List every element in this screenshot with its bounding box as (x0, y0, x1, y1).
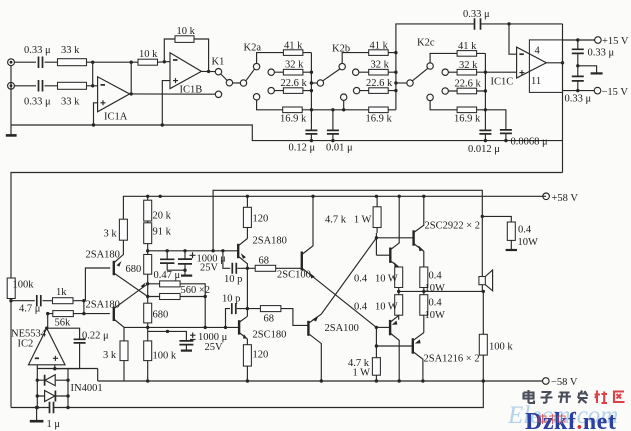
svg-text:1k: 1k (56, 287, 67, 298)
capacitor 0.33u (bottom input) (24, 80, 51, 108)
svg-text:2SA1216 × 2: 2SA1216 × 2 (424, 354, 480, 365)
svg-text:41 k: 41 k (284, 40, 303, 51)
svg-text:3 k: 3 k (103, 350, 117, 361)
op-amp IC1B (170, 53, 202, 96)
terminal -58V (543, 377, 578, 388)
svg-text:25V: 25V (205, 342, 224, 353)
svg-text:33 k: 33 k (61, 97, 80, 108)
resistor 22.6k (K2a) (281, 78, 308, 93)
svg-text:0.12 μ: 0.12 μ (289, 143, 316, 154)
svg-text:41 k: 41 k (458, 41, 477, 52)
wire: bottom feedback wire (11, 381, 483, 408)
resistor 56k (53, 311, 74, 329)
wire: IC1B output to K1 (201, 70, 215, 72)
svg-text:33 k: 33 k (61, 45, 80, 56)
svg-text:120: 120 (253, 350, 269, 361)
capacitor 1000u 25V (lower, bipolar) (166, 330, 228, 353)
wire: IC1B +input to ground bus (162, 81, 170, 125)
node: 1k/56k junction (82, 299, 85, 302)
op-amp IC1A (98, 77, 130, 123)
op-amp IC2 NE5534 (11, 327, 65, 365)
wire: K2a 32k row (274, 71, 311, 73)
wire: driver base node line (148, 250, 238, 252)
resistor 0.4 10W (upper left) (354, 267, 403, 291)
resistor 16.9k (K2c) (454, 107, 481, 125)
svg-text:16.9 k: 16.9 k (366, 114, 393, 125)
input terminal J1 (top) (8, 59, 15, 66)
switch K2c contact 32k (442, 69, 448, 75)
capacitor 0.012u (468, 130, 500, 155)
resistor 32k (K2c) (457, 60, 478, 75)
resistor 0.4 10W (lower right) (420, 291, 445, 332)
svg-text:0.4: 0.4 (429, 298, 443, 309)
capacitor 10p (upper) (223, 251, 249, 285)
svg-text:K1: K1 (212, 57, 225, 68)
svg-text:100k: 100k (13, 280, 35, 291)
svg-text:16.9 k: 16.9 k (280, 114, 307, 125)
svg-text:+58 V: +58 V (552, 193, 579, 204)
resistor 68 (lower) (247, 306, 308, 326)
resistor 680 (lower) (144, 284, 169, 329)
svg-text:0.33 μ: 0.33 μ (24, 45, 51, 56)
resistor 100k (input) (7, 278, 34, 299)
switch K2c contact 16.9k (427, 94, 486, 110)
svg-text:0.33 μ: 0.33 μ (588, 48, 615, 59)
resistor 100k (output to -58V) (479, 291, 513, 382)
svg-text:0.01 μ: 0.01 μ (326, 143, 353, 154)
IC1C power box (pins 4 / 11) (529, 40, 562, 93)
wire: K2b 22.6k row (360, 90, 396, 92)
svg-text:0.33 μ: 0.33 μ (24, 97, 51, 108)
resistor 22.6k (K2c) (455, 78, 482, 93)
wire: output node line (399, 290, 484, 292)
svg-text:680: 680 (126, 264, 142, 275)
svg-text:0.33 μ: 0.33 μ (463, 9, 490, 20)
svg-text:0.22 μ: 0.22 μ (82, 331, 109, 342)
wire: K2c 22.6k row (448, 90, 485, 92)
transistor T4 2SA1216 (right of pair) (376, 333, 479, 383)
resistor 16.9k (K2a) (280, 107, 307, 125)
transistor Q3 2SA180 (upper input) (86, 240, 148, 296)
watermark: small red overlay glyphs (539, 414, 565, 424)
wire: K2a output bus (310, 53, 312, 141)
capacitor 0.33u (+15 decoupling) (572, 38, 615, 76)
capacitor 4.7u (19, 295, 41, 315)
svg-text:32 k: 32 k (371, 60, 390, 71)
capacitor 0.33u (top input) (24, 45, 51, 68)
transistor Q7 2SA100 (308, 238, 376, 383)
svg-text:2SC180: 2SC180 (253, 330, 287, 341)
terminal -15V (594, 87, 628, 98)
resistor 33k (bottom) (58, 82, 87, 107)
wire: IC1C -input from feedback line (509, 24, 517, 54)
wire: lower bias rail (124, 326, 239, 328)
resistor 32k (K2b) (369, 60, 390, 75)
switch K2c pole (396, 38, 435, 87)
svg-text:1 W: 1 W (353, 368, 371, 379)
svg-text:11: 11 (531, 76, 541, 87)
transistor T2 2SC2922 (left of pair) (376, 195, 401, 268)
svg-text:2SC2922 × 2: 2SC2922 × 2 (425, 221, 481, 232)
switch K2a pole (240, 43, 261, 87)
capacitor 0.47u (154, 249, 186, 281)
wire: diode clamp rails (37, 369, 68, 408)
diode D1 IN4001 (37, 375, 68, 386)
svg-text:0.4: 0.4 (518, 225, 532, 236)
transistor Q8 2SC100 (277, 195, 376, 328)
transistor Q4 2SA180 (lower input) (86, 282, 148, 341)
resistor 0.4 10W (lower left) (354, 291, 403, 319)
wire: 16.9k row (K2a to K2b) (257, 100, 396, 110)
resistor 20k (144, 195, 172, 222)
svg-text:68: 68 (259, 256, 270, 267)
svg-text:10W: 10W (518, 237, 539, 248)
svg-text:4.7 μ: 4.7 μ (19, 304, 41, 315)
wire: IC2 -input stub to diode rail (36, 365, 38, 369)
svg-text:680: 680 (153, 310, 169, 321)
switch K2a contact 32k (268, 69, 274, 75)
wire: feedback rail (output to driver node) (213, 190, 482, 251)
switch K2a contact 16.9k (253, 94, 259, 100)
svg-text:41 k: 41 k (370, 40, 389, 51)
svg-text:100 k: 100 k (489, 342, 513, 353)
resistor 3k (lower) (103, 341, 128, 381)
svg-text:−15 V: −15 V (602, 87, 629, 98)
resistor 10k (series) (138, 49, 158, 65)
svg-text:0.47 μ: 0.47 μ (154, 270, 181, 281)
svg-text:22.6 k: 22.6 k (366, 78, 393, 89)
wire: input common vertical to ground (10, 66, 12, 135)
diode D2 IN4001 (37, 383, 102, 402)
wire: IC1C output to right vertical (546, 62, 562, 64)
resistor 41k (K2b) (369, 40, 389, 55)
resistor 32k (K2a) (283, 60, 304, 75)
ground (feedback return) (30, 406, 44, 421)
resistor 41k (K2c) (457, 41, 477, 56)
svg-text:32 k: 32 k (459, 60, 478, 71)
wire: junction vertical + to Q4 base (84, 301, 110, 314)
svg-text:1 μ: 1 μ (47, 419, 61, 430)
resistor 560 (upper of x2) (148, 281, 206, 297)
wire: vertical to Q3 base (84, 268, 110, 301)
speaker LS (479, 216, 493, 291)
wire: 56k row (48, 314, 84, 329)
capacitor 0.0068u (485, 110, 548, 148)
resistor 120 (lower) (243, 345, 268, 383)
capacitor 0.33u (IC1C feedback) (463, 9, 490, 30)
svg-text:16.9 k: 16.9 k (454, 114, 481, 125)
switch K2a contact 22.6k (268, 87, 274, 93)
resistor 100k (mid) (144, 327, 177, 382)
svg-text:10 k: 10 k (177, 26, 196, 37)
svg-text:120: 120 (253, 214, 269, 225)
switch K2b contact 32k (353, 69, 359, 75)
transistor Q5 2SA180 (driver) (238, 236, 287, 317)
svg-text:10W: 10W (425, 283, 446, 294)
svg-text:IC1A: IC1A (104, 112, 128, 123)
svg-text:IC2: IC2 (18, 339, 34, 350)
wire: ground bus (top section) (11, 125, 563, 141)
wire: IC1A output (130, 93, 216, 95)
capacitor 0.33u (-15 decoupling) (565, 76, 592, 104)
capacitor 10p (lower) (222, 294, 249, 328)
switch K1 (212, 57, 241, 98)
ground (decoupling midpoint) (576, 64, 603, 73)
wire: K2c output bus (484, 53, 486, 140)
resistor 560 (lower of x2) (146, 285, 210, 327)
svg-text:3 k: 3 k (104, 229, 118, 240)
svg-text:0.012 μ: 0.012 μ (468, 144, 500, 155)
wire: K2c bus to IC1C +input (485, 71, 516, 73)
wire: IC1A +input to ground bus (94, 103, 98, 125)
resistor 10k (IC1B feedback) (175, 26, 196, 42)
wire: bottom input row (14, 85, 97, 87)
svg-text:2SA100: 2SA100 (325, 323, 359, 334)
svg-text:IC1C: IC1C (491, 77, 514, 88)
wire: +58V rail (123, 196, 546, 219)
resistor 33k (top) (58, 45, 87, 66)
wire: IC1B feedback loop (164, 39, 208, 71)
svg-text:K2a: K2a (244, 43, 262, 54)
wire: left edge below 100k down to bottom wire (10, 299, 12, 408)
resistor 68 (upper) (247, 256, 301, 272)
wire: top input row (14, 61, 138, 63)
svg-text:56k: 56k (55, 318, 72, 329)
svg-text:IN4001: IN4001 (71, 383, 103, 394)
wire: 10k to IC1B -input (158, 61, 171, 64)
resistor 22.6k (K2b) (366, 78, 393, 93)
svg-text:10 p: 10 p (222, 294, 240, 305)
wire: K2b output bus (up to 0.33u feedback line) (396, 24, 563, 110)
terminal +58V (543, 193, 579, 204)
resistor 0.4 10W (upper right) (420, 267, 445, 294)
svg-text:−58 V: −58 V (551, 377, 578, 388)
ground (input) (6, 134, 17, 137)
wire: K2a 41k row (257, 53, 312, 64)
switch K2b contact 22.6k (353, 87, 359, 93)
capacitor 1u (feedback) (47, 402, 61, 430)
svg-text:22.6 k: 22.6 k (455, 78, 482, 89)
capacitor 0.01u (326, 108, 353, 153)
svg-text:32 k: 32 k (285, 60, 304, 71)
resistor 120 (upper) (243, 195, 268, 239)
wire: -58V rail (68, 369, 543, 382)
wire: signal line from IC1C down-left into lower amp (box top edge + left edge) (11, 173, 563, 279)
op-amp IC1C (491, 47, 547, 87)
resistor 1k (53, 287, 74, 304)
input terminal J2 (bottom) (8, 82, 15, 89)
svg-text:IC1B: IC1B (180, 85, 203, 96)
wire: +15V rail (563, 39, 595, 41)
switch K2c contact 22.6k (442, 88, 448, 94)
switch K2b contact 16.9k (341, 94, 347, 112)
wire: right vertical (output / box edge down to lower section) (562, 24, 564, 173)
wire: K2b 32k row (359, 71, 396, 73)
resistor 0.4 10W (zobel, top right) (481, 215, 538, 250)
svg-text:4.7 k 1 W: 4.7 k 1 W (325, 215, 372, 226)
svg-text:+15 V: +15 V (602, 36, 629, 47)
wire: -15V rail (563, 90, 595, 92)
resistor 4.7k 1W (upper) (325, 195, 381, 256)
capacitor 0.12u (289, 130, 318, 153)
watermark: CJK title strokes (dian zi kai fa) (524, 390, 588, 403)
capacitor 0.22u (IC2 comp) (48, 328, 109, 369)
wire: K2c 41k row (430, 53, 485, 62)
switch K2b pole (311, 44, 350, 87)
resistor 3k (upper) (104, 219, 128, 240)
wire: K2a 22.6k row (274, 90, 311, 92)
svg-text:0.0068 μ: 0.0068 μ (511, 137, 549, 148)
transistor T3 2SA1216 (left of pair) (376, 316, 401, 383)
resistor 680 (upper) (126, 255, 152, 286)
node: IC1B -input / feedback (163, 60, 166, 63)
svg-text:91 k: 91 k (153, 227, 172, 238)
resistor 4.7k 1W (lower) (348, 358, 380, 383)
svg-text:4: 4 (535, 46, 541, 57)
svg-text:2SA180: 2SA180 (86, 250, 120, 261)
node A junction + vertical tie (91, 61, 94, 88)
wire: K2c 32k row (448, 71, 485, 73)
svg-text:0.4 10 W: 0.4 10 W (354, 274, 398, 285)
watermark: CJK title strokes red (she qu) (595, 391, 625, 404)
capacitor +1000u 25V (upper) (178, 249, 226, 276)
resistor 16.9k (K2b) (366, 107, 393, 125)
svg-text:0.4: 0.4 (429, 271, 443, 282)
svg-text:K2c: K2c (417, 38, 435, 49)
wire: output pair base tie vertical (375, 327, 377, 357)
svg-text:2SA180: 2SA180 (253, 236, 287, 247)
node B junction (feedback tap) (130, 61, 133, 96)
svg-text:10 k: 10 k (139, 49, 158, 60)
terminal +15V (595, 36, 629, 47)
svg-text:25V: 25V (200, 263, 219, 274)
svg-text:560 ×2: 560 ×2 (181, 285, 211, 296)
svg-text:10W: 10W (425, 310, 446, 321)
svg-text:0.4 10 W: 0.4 10 W (354, 302, 398, 313)
svg-text:100 k: 100 k (153, 351, 177, 362)
svg-text:20 k: 20 k (153, 211, 172, 222)
svg-text:22.6 k: 22.6 k (281, 78, 308, 89)
resistor 91k (144, 221, 172, 255)
svg-text:0.33 μ: 0.33 μ (565, 94, 592, 105)
svg-text:10 p: 10 p (224, 274, 242, 285)
transistor T1 2SC2922 (right of pair) (376, 195, 480, 267)
svg-text:68: 68 (264, 314, 275, 325)
wire: K2b 41k row (342, 53, 396, 64)
resistor 41k (K2a) (283, 40, 303, 55)
wire: input row 4.7u/1k (11, 300, 84, 302)
transistor Q6 2SC180 (239, 316, 286, 344)
